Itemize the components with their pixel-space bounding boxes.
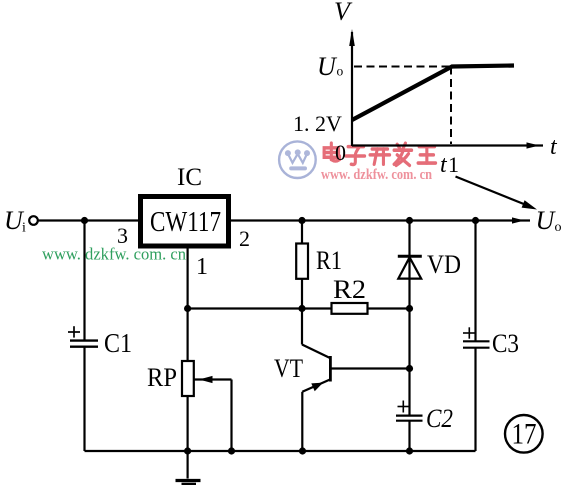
potentiometer RP: [182, 361, 194, 396]
svg-text:17: 17: [512, 418, 537, 451]
node VD top: [406, 217, 413, 224]
svg-text:R1: R1: [316, 246, 342, 275]
node RP bottom: [184, 447, 191, 454]
graph dashed level line: [354, 66, 451, 68]
node pin1 / R2 junction: [184, 305, 191, 312]
电: [324, 143, 339, 161]
node R1 bottom: [298, 305, 305, 312]
node VD bottom / R2 right: [406, 305, 413, 312]
node C3 top: [472, 217, 479, 224]
watermark chinese text 电子开发王: [324, 143, 435, 165]
wire pin2 to output: [231, 219, 530, 221]
node input/C1 junction: [81, 217, 88, 224]
svg-text:1: 1: [448, 152, 459, 177]
ground: [187, 451, 189, 479]
resistor R1: [301, 221, 303, 244]
watermark logo circle W: [279, 141, 316, 178]
svg-text:3: 3: [117, 223, 128, 248]
wire input to IC pin3: [38, 219, 138, 221]
graph t axis: [352, 144, 543, 146]
graph dashed t1 line: [450, 67, 452, 145]
annotation arrow t1 to output: [456, 177, 526, 205]
node VT base: [406, 365, 413, 372]
transistor VT: [301, 309, 303, 345]
resistor R2: [332, 303, 368, 314]
figure number 17: [505, 415, 543, 453]
子: [346, 147, 365, 165]
svg-text:www. dzkfw. com. cn: www. dzkfw. com. cn: [321, 167, 433, 183]
开: [370, 149, 390, 164]
svg-text:o: o: [337, 64, 344, 79]
svg-text:U: U: [536, 206, 557, 235]
svg-text:VT: VT: [274, 354, 303, 383]
svg-text:R2: R2: [333, 275, 366, 304]
capacitor C1: [83, 221, 85, 341]
王: [418, 147, 436, 163]
svg-text:1. 2V: 1. 2V: [293, 111, 342, 136]
wire VT base to C2: [408, 369, 410, 416]
svg-text:0: 0: [335, 140, 346, 165]
svg-text:U: U: [317, 52, 338, 81]
svg-text:1: 1: [196, 254, 208, 280]
graph curve: [352, 66, 514, 121]
svg-text:C3: C3: [492, 329, 519, 358]
graph V axis: [351, 32, 353, 146]
wire IC pin1 down: [187, 246, 189, 361]
svg-text:VD: VD: [427, 250, 461, 279]
capacitor C2: [398, 406, 410, 408]
svg-text:i: i: [22, 221, 26, 236]
output arrow: [512, 217, 525, 223]
svg-text:C1: C1: [104, 328, 132, 358]
wire VD to VT base: [408, 309, 410, 369]
node wiper bottom: [228, 447, 235, 454]
diode VD: [408, 221, 410, 309]
svg-text:IC: IC: [177, 164, 202, 191]
node C2 bottom: [406, 447, 413, 454]
svg-text:CW117: CW117: [150, 207, 221, 238]
wire R2 row left: [188, 307, 332, 309]
potentiometer wiper arrow: [195, 378, 232, 380]
svg-text:o: o: [555, 220, 562, 235]
capacitor C3: [474, 221, 476, 342]
bottom wire: [85, 450, 476, 452]
node R1 top: [298, 217, 305, 224]
svg-text:C2: C2: [426, 404, 453, 433]
node VT emitter bottom: [299, 447, 306, 454]
svg-text:2: 2: [239, 226, 250, 251]
发: [394, 143, 412, 165]
wire R2 row right: [368, 307, 410, 309]
IC U1 CW117: [141, 197, 229, 247]
svg-text:RP: RP: [147, 363, 177, 392]
